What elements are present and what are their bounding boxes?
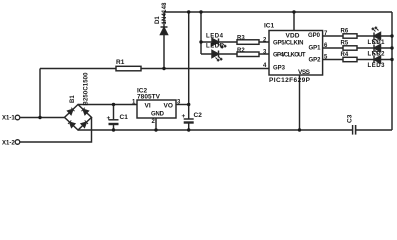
junction dot LED4 branch xyxy=(199,40,202,43)
junction dot C1 bottom rail xyxy=(112,128,115,131)
svg-text:LED4: LED4 xyxy=(206,33,224,39)
svg-text:GP3: GP3 xyxy=(273,65,286,71)
svg-text:PIC12F629P: PIC12F629P xyxy=(269,77,311,84)
wire 7805 GND pin xyxy=(155,118,157,130)
svg-text:GP4/CLKOUT: GP4/CLKOUT xyxy=(273,52,306,58)
svg-text:B1: B1 xyxy=(70,95,76,103)
svg-text:R4: R4 xyxy=(341,52,349,58)
svg-text:GND: GND xyxy=(151,112,165,118)
junction dot GND pin rail xyxy=(154,128,157,131)
svg-text:R6: R6 xyxy=(341,29,349,35)
svg-text:2: 2 xyxy=(152,119,156,125)
junction dot VO / C2 xyxy=(187,103,190,106)
svg-text:7805TV: 7805TV xyxy=(137,94,161,101)
svg-text:B250C1500: B250C1500 xyxy=(84,72,90,106)
svg-text:R1: R1 xyxy=(116,59,125,66)
resistor R1 xyxy=(116,66,141,71)
wire 7805 VO pin xyxy=(176,104,189,106)
svg-text:LED1: LED1 xyxy=(368,40,386,46)
diode D1 xyxy=(161,27,168,35)
svg-text:R3: R3 xyxy=(237,36,245,42)
resistor R6 xyxy=(343,34,357,38)
wire left vertical to X1-1 xyxy=(39,69,41,118)
capacitor C1 xyxy=(109,120,119,124)
junction dot X1-1 wire xyxy=(38,116,41,119)
wire right vertical xyxy=(391,12,393,130)
svg-text:LED3: LED3 xyxy=(368,63,386,69)
connector X1-2 xyxy=(15,140,20,145)
junction dot top rail / LED4-5 vertical xyxy=(199,10,202,13)
wire LED4 row xyxy=(201,41,269,43)
resistor R3 xyxy=(237,40,259,45)
svg-text:VO: VO xyxy=(164,103,173,110)
wire X1-1 to bridge xyxy=(20,117,65,119)
svg-text:R5: R5 xyxy=(341,40,349,46)
IC U1 box PIC12F629 xyxy=(269,31,323,76)
svg-text:X1-2: X1-2 xyxy=(2,141,15,147)
wire GP0 row xyxy=(323,35,392,37)
wire C1 branch xyxy=(113,105,115,131)
wire LED5 row xyxy=(201,53,269,55)
capacitor C3 xyxy=(353,125,356,135)
LED LED4 xyxy=(212,39,226,49)
wire D1 branch xyxy=(163,12,165,69)
svg-text:C3: C3 xyxy=(347,114,354,123)
wire LED4/LED5 vertical xyxy=(200,12,202,54)
svg-text:C1: C1 xyxy=(120,114,129,121)
junction dot VSS rail xyxy=(298,128,301,131)
wire +5V vertical to 7805 VO and C2 xyxy=(188,12,190,130)
LED LED5 xyxy=(212,51,222,62)
junction dot LED1 right vertical xyxy=(390,34,393,37)
wire bottom GND rail right section xyxy=(356,129,392,131)
junction dot C2 bottom rail xyxy=(187,128,190,131)
svg-text:VSS: VSS xyxy=(298,69,311,76)
resistor R5 xyxy=(343,46,357,50)
LED LED2 xyxy=(372,39,381,52)
wire X1-2 to bridge xyxy=(20,117,92,142)
wire bottom GND rail left section xyxy=(78,129,352,131)
capacitor C2 xyxy=(184,119,194,123)
resistor R2 xyxy=(237,52,259,57)
bridge rectifier B1 xyxy=(65,105,92,131)
wire R1/GP3 row xyxy=(40,68,269,70)
svg-text:X1-1: X1-1 xyxy=(2,116,15,122)
svg-text:+: + xyxy=(107,115,111,122)
wire top +5V rail xyxy=(164,11,392,13)
svg-text:C2: C2 xyxy=(194,112,203,119)
junction dot top rail / C2 vertical xyxy=(187,10,190,13)
LED LED1 xyxy=(372,27,381,40)
wire GP1 row xyxy=(323,47,392,49)
svg-text:GP0: GP0 xyxy=(308,33,321,39)
svg-text:GP1: GP1 xyxy=(309,45,322,51)
svg-text:GP2: GP2 xyxy=(309,57,322,63)
junction dot LED3 right vertical xyxy=(390,58,393,61)
junction dot D1 to R1 row xyxy=(162,67,165,70)
svg-text:IC1: IC1 xyxy=(264,23,275,30)
junction dot LED2 right vertical xyxy=(390,46,393,49)
svg-text:LED2: LED2 xyxy=(368,52,386,58)
svg-text:LED5: LED5 xyxy=(206,43,224,49)
svg-text:GP5/CLKIN: GP5/CLKIN xyxy=(273,40,304,46)
svg-text:VI: VI xyxy=(145,103,151,110)
wire IC1 VDD pin xyxy=(293,12,295,31)
IC U2 box 7805 xyxy=(137,100,176,118)
svg-text:1N4148: 1N4148 xyxy=(162,2,168,25)
junction dot C1 top xyxy=(112,103,115,106)
connector X1-1 xyxy=(15,115,20,120)
wire bridge to 7805 VI xyxy=(78,104,137,106)
junction dot top rail / VDD xyxy=(292,10,295,13)
wire GP2 row xyxy=(323,59,392,61)
wire IC1 VSS pin xyxy=(299,75,301,130)
svg-text:+: + xyxy=(182,113,186,120)
svg-text:D1: D1 xyxy=(155,16,161,24)
svg-text:VDD: VDD xyxy=(286,33,300,40)
LED LED3 xyxy=(372,51,381,64)
resistor R4 xyxy=(343,57,357,61)
svg-text:R2: R2 xyxy=(237,48,245,54)
